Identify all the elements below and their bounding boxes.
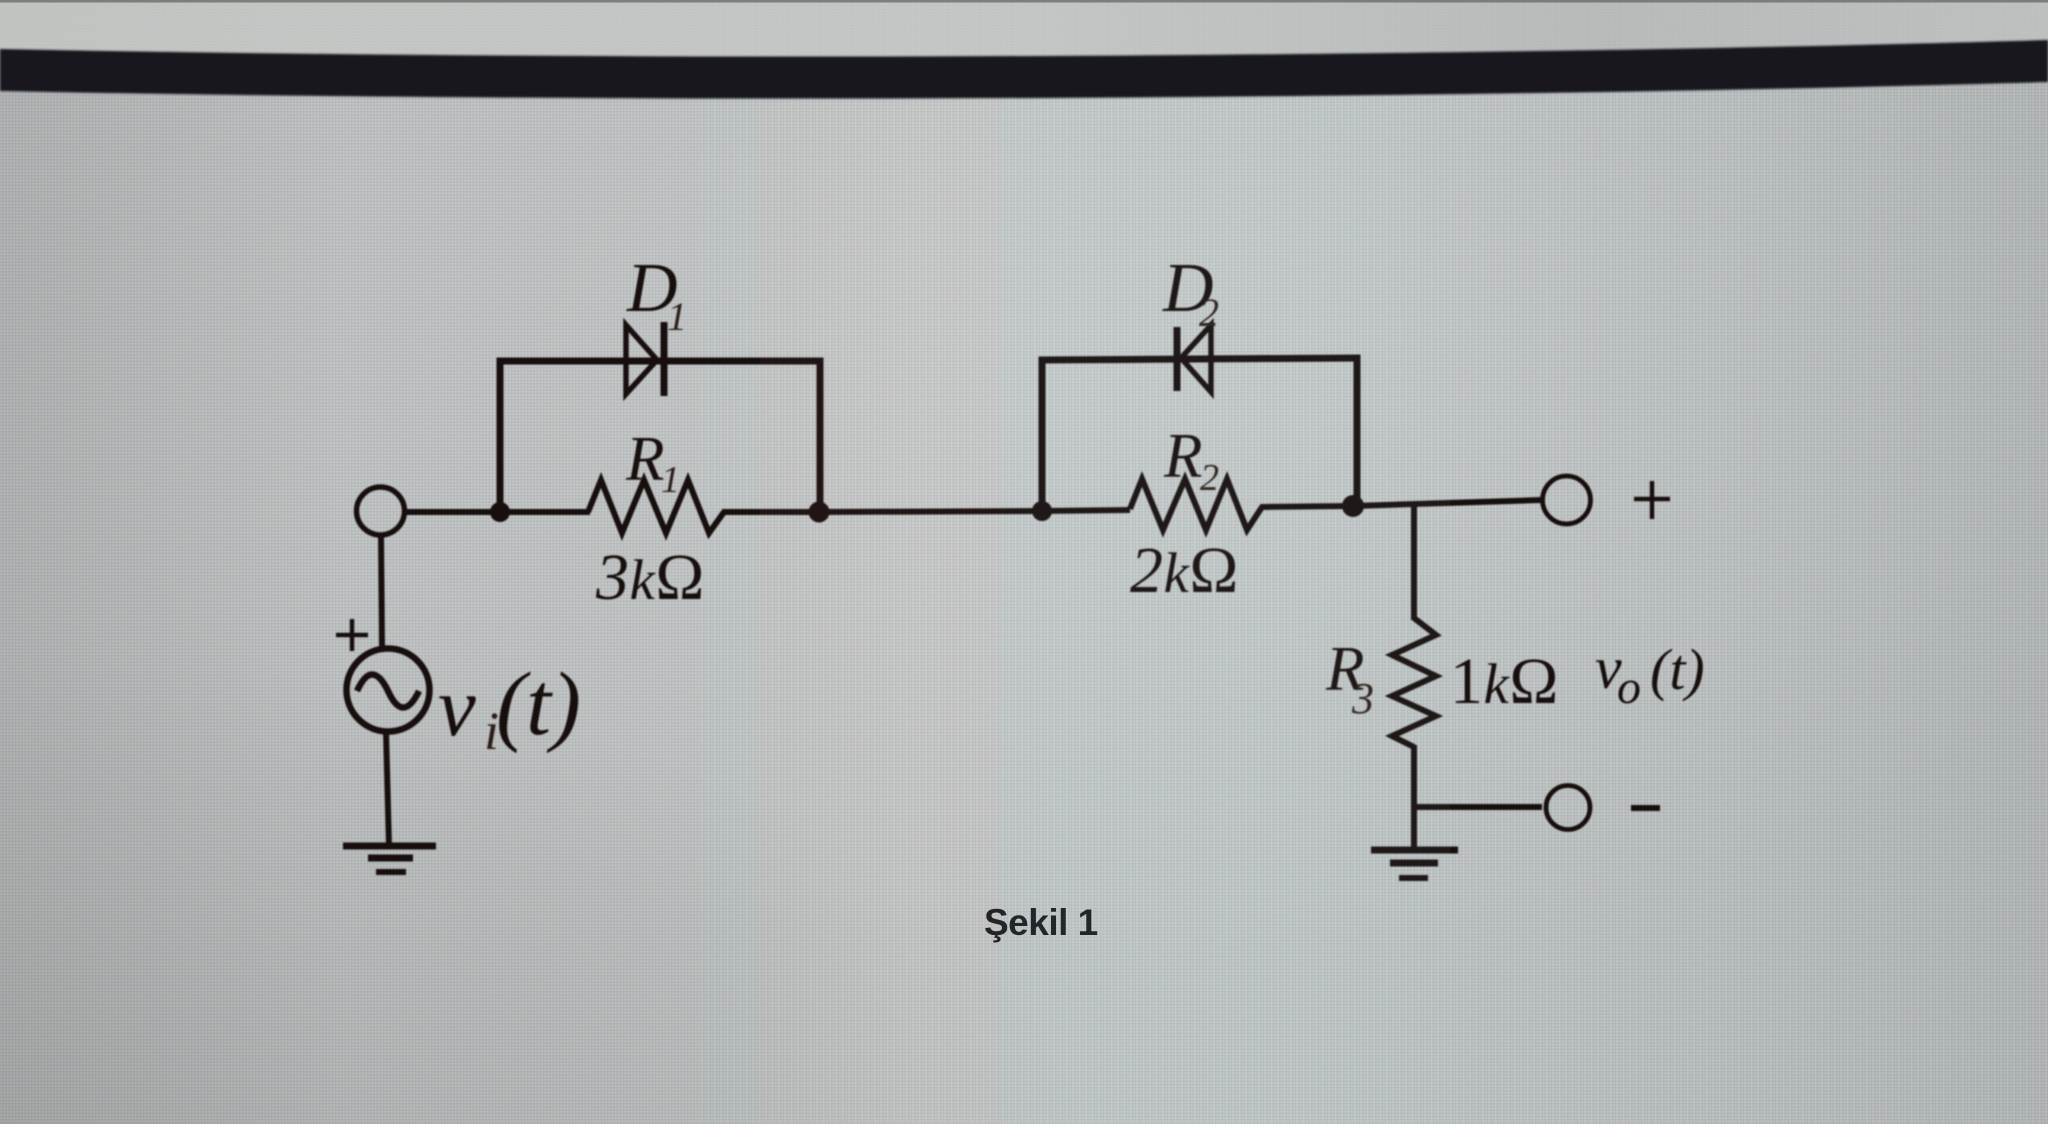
- source sine: [357, 675, 419, 708]
- thin dark top edge: [0, 0, 2048, 3]
- wire main bus left: [403, 509, 590, 515]
- junction node B: [809, 502, 830, 523]
- terminal input: [357, 487, 405, 535]
- resistor R1: [588, 480, 724, 533]
- dark horizontal bar across top: [0, 40, 2048, 99]
- wire loop D1: [500, 361, 820, 511]
- diode D2: [1181, 325, 1211, 392]
- wire minus branch: [1414, 804, 1542, 810]
- resistor R2: [1130, 479, 1262, 530]
- junction node D: [1342, 495, 1364, 517]
- moire tint bands: [760, 100, 1000, 1124]
- resistor R3: [1392, 618, 1436, 747]
- circuit schematic: [336, 322, 1670, 878]
- minus sign output: [1631, 805, 1660, 811]
- wire bus middle: [722, 510, 1130, 512]
- wire R3 stem: [1411, 503, 1417, 620]
- plus sign output: [1634, 481, 1670, 519]
- terminal output plus: [1543, 476, 1591, 524]
- strip above dark bar: [0, 0, 2048, 58]
- diode D1: [626, 325, 657, 394]
- wire loop D2: [1042, 358, 1357, 510]
- wire R3 to ground: [1411, 745, 1417, 850]
- wire bus right: [1260, 500, 1542, 507]
- ground right: [1371, 847, 1458, 854]
- junction node A: [490, 502, 510, 522]
- ground left: [343, 843, 436, 850]
- junction node C: [1032, 501, 1052, 521]
- wire input stem bottom: [386, 732, 389, 846]
- wire input stem top: [381, 534, 382, 646]
- plus sign source: [336, 619, 368, 651]
- terminal output minus: [1546, 786, 1590, 830]
- source vi circle: [347, 649, 430, 732]
